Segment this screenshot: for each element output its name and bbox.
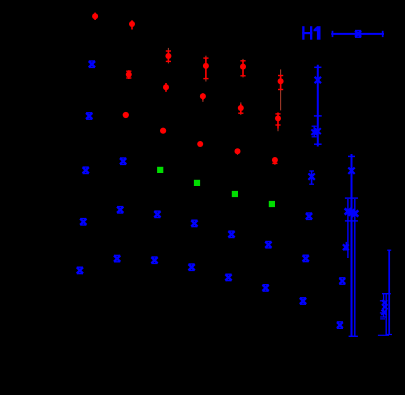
blue data point B16 xyxy=(263,285,269,291)
blue data point B6 xyxy=(120,158,126,164)
blue data point B15 xyxy=(265,242,271,248)
blue error-bar column C xyxy=(378,250,392,335)
blue data point B19 xyxy=(300,298,306,304)
blue data point B10 xyxy=(151,257,157,263)
green data point G2 xyxy=(194,180,200,186)
legend label H1 xyxy=(302,26,320,40)
red data point R14 xyxy=(235,148,241,155)
blue data point B1 xyxy=(89,61,95,67)
blue data point B13 xyxy=(228,231,234,237)
red data point R10 xyxy=(238,102,244,115)
red data point R12 xyxy=(123,112,129,118)
blue data point B8 xyxy=(114,255,120,261)
green data point G3 xyxy=(232,191,238,197)
red data point R7 xyxy=(126,70,132,79)
blue data point B12 xyxy=(189,264,195,270)
blue data point B20 with error bar xyxy=(308,171,314,184)
blue data point B5 xyxy=(77,267,83,273)
blue data point B7 xyxy=(117,207,123,213)
red data point R6 xyxy=(278,69,284,110)
red data point R15 xyxy=(272,157,278,165)
green data point G4 xyxy=(269,201,275,207)
blue data point B4 xyxy=(80,219,86,225)
blue error-bar column A xyxy=(311,65,321,147)
red data point R8 xyxy=(163,83,169,92)
red data point R16 xyxy=(160,128,166,134)
blue data point B21 with error bar xyxy=(343,242,349,250)
blue data point B11 xyxy=(191,220,197,226)
red data point R4 xyxy=(203,56,209,82)
red data point R2 xyxy=(129,20,135,29)
blue data point B17 xyxy=(306,213,312,219)
blue data point B22 xyxy=(339,278,345,284)
blue error-bar column B xyxy=(345,154,359,336)
legend data marker xyxy=(331,31,384,38)
red data point R3 xyxy=(165,48,171,64)
blue data point B9 xyxy=(154,211,160,217)
blue data point B3 xyxy=(83,167,89,173)
red data point R11 xyxy=(275,113,281,132)
red data point R9 xyxy=(200,93,206,102)
red data point R13 xyxy=(197,141,203,147)
blue data point B14 xyxy=(225,274,231,280)
red data point R1 xyxy=(92,13,98,20)
blue data point B18 xyxy=(303,255,309,261)
red data point R5 xyxy=(240,59,246,78)
green data point G1 xyxy=(157,167,163,173)
blue data point B2 xyxy=(86,113,92,119)
blue data point B23 xyxy=(337,322,343,328)
